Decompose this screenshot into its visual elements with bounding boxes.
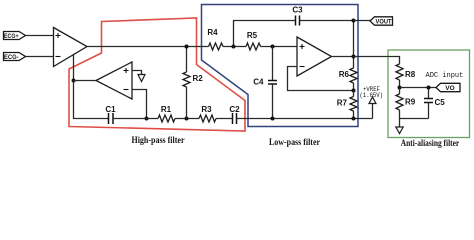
wire output to anti-aliasing filter — [354, 57, 400, 65]
node R8/R9 junction — [398, 86, 402, 90]
ground (U2 + input) — [138, 75, 145, 82]
wire output vertical — [353, 21, 355, 57]
svg-text:R5: R5 — [247, 31, 258, 40]
capacitor C2 — [229, 105, 240, 124]
wire C2 to VREF rail — [237, 118, 373, 120]
node C4 bottom junction — [271, 117, 275, 121]
resistor R2 (vertical) — [183, 47, 203, 119]
terminal flag VOUT — [370, 17, 393, 26]
op-amp U2 (integrator, points left) — [96, 62, 132, 99]
wire node down to bottom rail — [74, 81, 109, 119]
svg-text:C3: C3 — [292, 6, 303, 15]
svg-text:(1.65V): (1.65V) — [360, 92, 384, 99]
resistor R4 — [207, 28, 223, 50]
capacitor C3 (top feedback) — [234, 6, 354, 47]
svg-text:ECG-: ECG- — [4, 54, 19, 61]
node C3 top junction — [352, 19, 356, 23]
resistor R1 — [158, 105, 175, 122]
svg-text:R7: R7 — [337, 99, 348, 108]
wire amp output — [87, 46, 209, 48]
node R2 top junction — [185, 45, 189, 49]
svg-text:R6: R6 — [339, 70, 350, 79]
resistor R5 — [246, 31, 261, 50]
svg-text:ECG+: ECG+ — [4, 33, 19, 40]
svg-text:R4: R4 — [207, 28, 218, 37]
wire U2 - input feedback down — [132, 90, 147, 119]
svg-text:Anti-aliasing filter: Anti-aliasing filter — [401, 139, 460, 149]
wire R5 to op-amp — [261, 46, 298, 48]
svg-text:R1: R1 — [161, 105, 172, 114]
terminal flag VO — [436, 83, 460, 92]
resistor R7 (vertical) — [337, 91, 357, 119]
terminal flag ECG+ — [4, 32, 26, 41]
node C1/R1 junction — [145, 117, 149, 121]
svg-text:VO: VO — [445, 85, 454, 92]
capacitor C1 — [105, 105, 116, 124]
node C4 branch junction — [271, 45, 275, 49]
wire R9 bottom to C5 bottom — [400, 118, 429, 120]
high-pass filter region outline (red) — [69, 18, 245, 131]
resistor R3 — [199, 105, 216, 122]
wire R1 to R3 — [175, 118, 199, 120]
capacitor C5 (vertical) — [424, 88, 445, 119]
low-pass filter region outline (blue) — [202, 5, 359, 127]
wire C1 to R1 — [113, 118, 158, 120]
wire node to U2 output — [74, 80, 97, 82]
svg-text:R8: R8 — [405, 70, 416, 79]
svg-text:Low-pass filter: Low-pass filter — [269, 138, 321, 148]
svg-text:C2: C2 — [229, 105, 240, 114]
resistor R6 (vertical) — [339, 57, 357, 91]
node C5 top junction — [427, 86, 431, 90]
wire U2 + input to ground — [132, 71, 142, 75]
svg-text:C1: C1 — [105, 105, 116, 114]
wire R4 to R5 — [223, 46, 246, 48]
svg-text:VOUT: VOUT — [376, 18, 392, 25]
node R7 bottom junction — [352, 117, 356, 121]
wire ECG- to amp — [26, 56, 54, 58]
terminal flag ECG- — [4, 53, 26, 62]
node R6/R7 junction — [352, 89, 356, 93]
wire U3 output — [332, 56, 354, 58]
wire R3 to C2 — [216, 118, 233, 120]
resistor R8 (vertical) — [396, 64, 416, 88]
node feedback junction — [72, 79, 76, 83]
svg-text:ADC input: ADC input — [426, 72, 464, 80]
node R2 bottom junction — [185, 117, 189, 121]
svg-text:R3: R3 — [201, 105, 212, 114]
node output junction — [352, 55, 356, 59]
svg-text:High-pass filter: High-pass filter — [132, 136, 186, 146]
resistor R9 (vertical) — [396, 88, 416, 128]
svg-text:C5: C5 — [435, 98, 446, 107]
op-amp U3 — [297, 37, 332, 76]
svg-text:C4: C4 — [253, 78, 264, 87]
wire U3 - input feedback loop — [288, 67, 354, 91]
svg-text:R9: R9 — [405, 98, 416, 107]
instrumentation amp U1 — [54, 28, 88, 67]
ground (R9 bottom) — [396, 127, 403, 134]
node C3 branch junction — [232, 45, 236, 49]
wire to VOUT flag — [354, 20, 371, 22]
capacitor C4 (vertical) — [253, 47, 277, 119]
+VREF supply arrow — [360, 86, 384, 119]
svg-text:R2: R2 — [193, 74, 204, 83]
wire amp ref pin down — [73, 55, 75, 81]
wire ECG+ to amp — [26, 35, 54, 37]
wire R8/R9 junction to VO flag — [400, 87, 437, 89]
anti-aliasing filter region outline (green) — [388, 50, 470, 138]
